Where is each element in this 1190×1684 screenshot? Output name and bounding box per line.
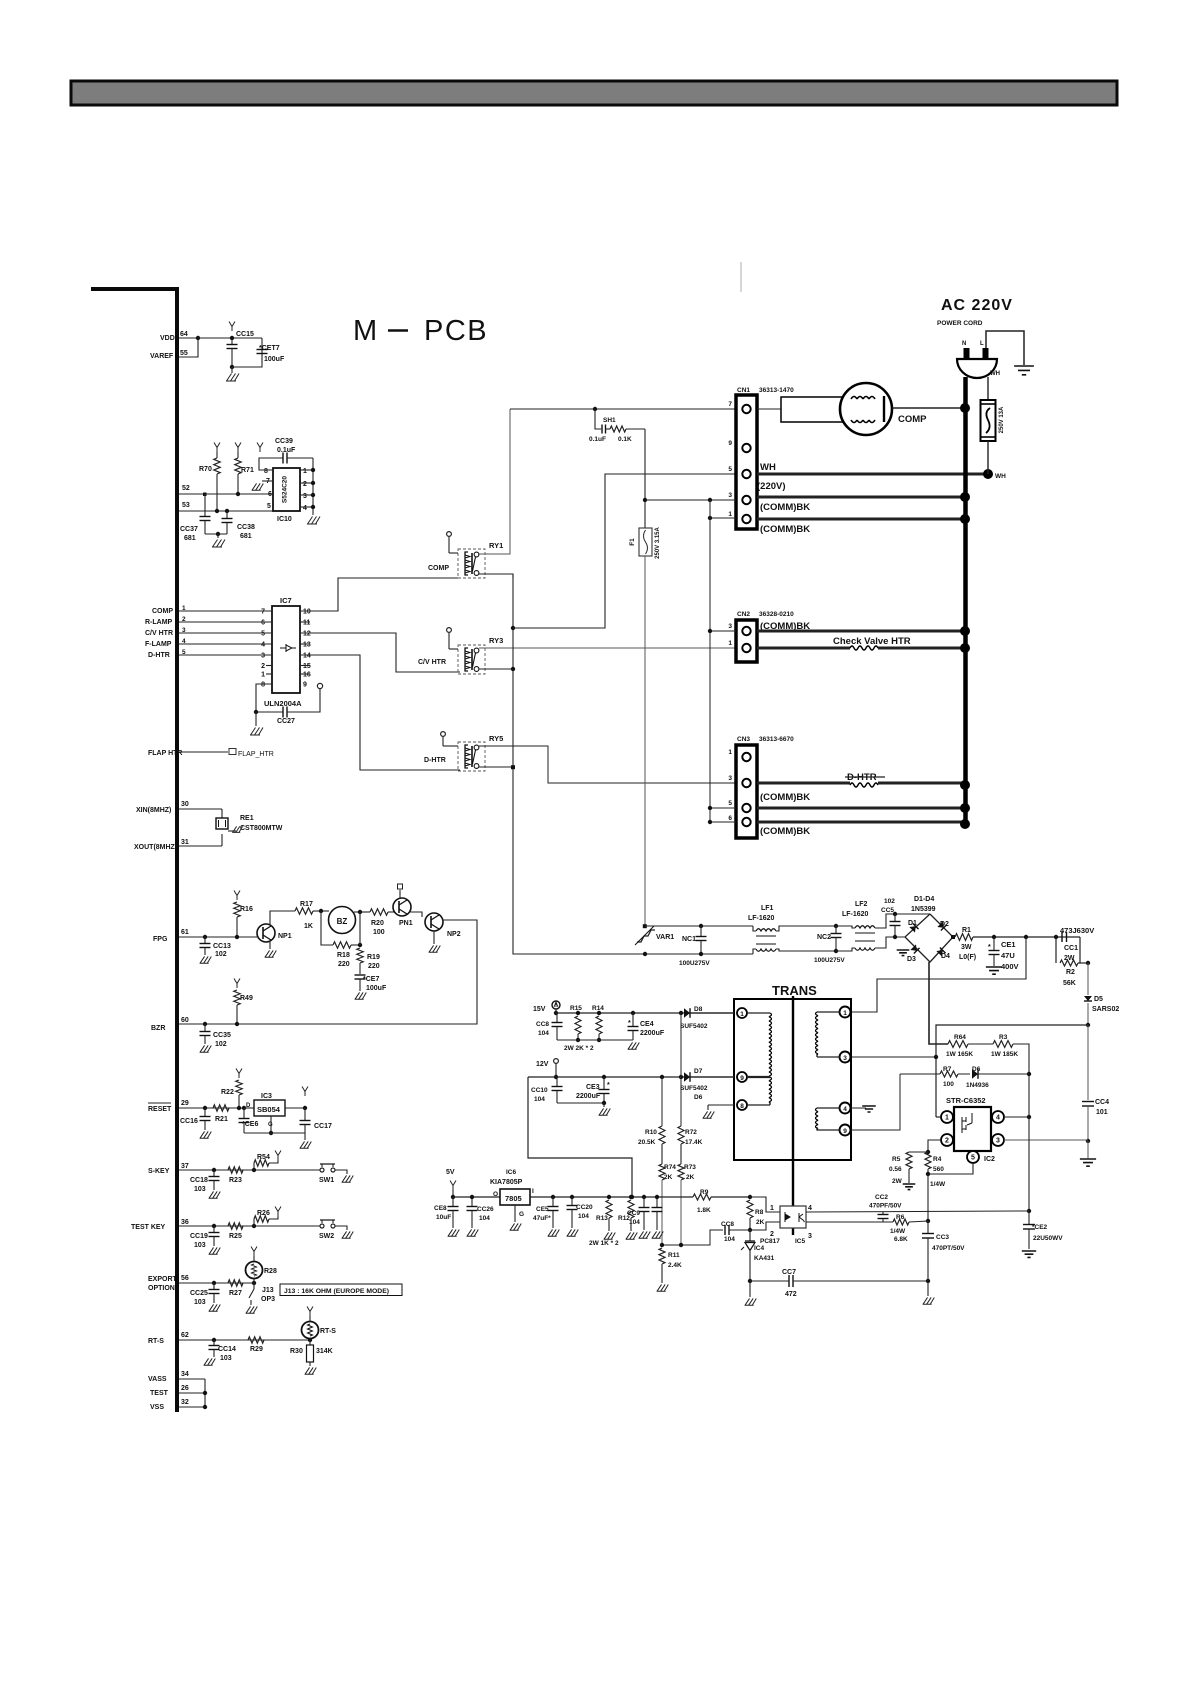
TRANS left pin 8 (737, 1100, 747, 1110)
svg-text:CE3: CE3 (586, 1084, 600, 1091)
svg-text:FPG: FPG (153, 936, 168, 943)
diode D2 (937, 921, 946, 930)
wire RY1 contact to relay common bus (479, 574, 513, 578)
ground (335, 1170, 347, 1174)
eeprom IC10 S524C20 (273, 468, 300, 511)
svg-text:8: 8 (264, 468, 268, 475)
svg-text:LF2: LF2 (855, 901, 868, 908)
resonator RE1 CST800MTW (221, 809, 223, 818)
snubber SH1 0.1uF 0.1K (510, 408, 736, 410)
compressor motor COMP (757, 408, 781, 410)
svg-text:100uF: 100uF (264, 356, 285, 363)
svg-text:100U275V: 100U275V (814, 957, 845, 964)
node VDD rail (196, 336, 200, 340)
svg-text:11: 11 (303, 620, 311, 627)
svg-text:R27: R27 (229, 1290, 242, 1297)
svg-text:CC17: CC17 (314, 1123, 332, 1130)
capacitor CC17 (302, 1087, 308, 1097)
ground (433, 931, 435, 944)
svg-text:IC5: IC5 (795, 1238, 806, 1245)
wire IC7 pin10 to RY1 coil (300, 578, 460, 611)
buzzer BZ (329, 907, 356, 934)
svg-text:CC19: CC19 (190, 1233, 208, 1240)
svg-text:J13: J13 (262, 1287, 274, 1294)
svg-text:VASS: VASS (148, 1376, 167, 1383)
wire pin5 (928, 1163, 973, 1174)
TRANS right pin 9 (840, 1125, 851, 1136)
svg-text:5: 5 (728, 466, 732, 473)
wire buzzer drive loop (179, 920, 477, 1024)
svg-text:1W 185K: 1W 185K (991, 1051, 1018, 1058)
relay common bus (513, 574, 645, 954)
svg-text:R26: R26 (257, 1210, 270, 1217)
feedback line pin3 opto (806, 1221, 883, 1223)
svg-text:CE1: CE1 (1001, 940, 1016, 949)
switch SW2 (320, 1224, 324, 1228)
svg-text:36313-1470: 36313-1470 (759, 387, 794, 394)
svg-text:681: 681 (240, 533, 252, 540)
ground (255, 712, 257, 726)
svg-text:3: 3 (808, 1233, 812, 1240)
svg-text:CE5: CE5 (536, 1206, 549, 1213)
capacitor CC15 (229, 322, 235, 332)
svg-text:2W 2K * 2: 2W 2K * 2 (564, 1045, 594, 1052)
svg-text:1K: 1K (304, 923, 313, 930)
svg-text:314K: 314K (316, 1348, 333, 1355)
svg-text:36313-6670: 36313-6670 (759, 736, 794, 743)
svg-text:1: 1 (770, 1205, 774, 1212)
svg-text:S-KEY: S-KEY (148, 1168, 170, 1175)
svg-text:CC13: CC13 (213, 943, 231, 950)
svg-text:R74: R74 (664, 1164, 676, 1171)
svg-text:36328-0210: 36328-0210 (759, 611, 794, 618)
svg-text:104: 104 (629, 1219, 640, 1226)
svg-text:R15: R15 (570, 1005, 582, 1012)
resistor R26 pull-up (252, 1224, 256, 1228)
wire CN1 pin1 left (710, 517, 736, 519)
svg-text:1: 1 (843, 1010, 847, 1017)
svg-text:CC37: CC37 (180, 526, 198, 533)
svg-text:D1-D4: D1-D4 (914, 896, 934, 903)
svg-text:CC26: CC26 (477, 1206, 494, 1213)
wire 5V rail (453, 1196, 500, 1198)
svg-text:64: 64 (180, 331, 188, 338)
wire (354, 911, 370, 913)
TRANS left pin 1 (737, 1008, 747, 1018)
svg-text:R72: R72 (685, 1129, 697, 1136)
svg-text:LF-1620: LF-1620 (842, 911, 869, 918)
svg-text:TEST: TEST (150, 1390, 169, 1397)
varistor VAR1 (643, 924, 647, 928)
wire startup bias (936, 1025, 1088, 1117)
svg-text:M: M (353, 315, 377, 347)
svg-text:400V: 400V (1001, 962, 1019, 971)
capacitor CC25 103 (212, 1281, 216, 1285)
svg-text:R71: R71 (241, 467, 254, 474)
svg-text:XOUT(8MHZ): XOUT(8MHZ) (134, 844, 177, 851)
svg-text:47uF*: 47uF* (533, 1215, 551, 1222)
svg-text:STR-C6352: STR-C6352 (946, 1096, 986, 1105)
secondary winding (747, 1012, 770, 1014)
svg-text:101: 101 (1096, 1109, 1108, 1116)
ground (927, 1281, 929, 1296)
svg-text:104: 104 (538, 1030, 549, 1037)
svg-text:7: 7 (261, 609, 265, 616)
svg-text:CC10: CC10 (531, 1087, 548, 1094)
optocoupler IC5 PC817 (750, 1197, 780, 1212)
svg-text:R29: R29 (250, 1346, 263, 1353)
svg-text:102: 102 (884, 898, 895, 905)
svg-text:104: 104 (479, 1215, 490, 1222)
AC N bus (963, 377, 968, 824)
svg-text:CC7: CC7 (782, 1269, 796, 1276)
wire (204, 1379, 206, 1407)
svg-text:CE8: CE8 (434, 1205, 447, 1212)
svg-text:1N4936: 1N4936 (966, 1082, 989, 1089)
resistor R49 (234, 979, 240, 989)
transistor NP1 (257, 924, 275, 942)
svg-text:R22: R22 (221, 1089, 234, 1096)
svg-text:(COMM)BK: (COMM)BK (760, 524, 810, 535)
resistor R23 (228, 1167, 243, 1173)
resistor R27 (228, 1280, 243, 1286)
svg-text:PCB: PCB (424, 315, 488, 347)
svg-text:NC1: NC1 (682, 936, 696, 943)
resistor R30 314K (309, 1340, 311, 1345)
svg-text:I: I (532, 1188, 534, 1195)
svg-text:1W 165K: 1W 165K (946, 1051, 973, 1058)
svg-text:2W 1K * 2: 2W 1K * 2 (589, 1240, 619, 1247)
svg-text:9: 9 (740, 1075, 744, 1082)
svg-text:9: 9 (728, 440, 732, 447)
relay RY3 (458, 645, 485, 674)
svg-text:R17: R17 (300, 901, 313, 908)
svg-text:12V: 12V (536, 1061, 549, 1068)
svg-text:0.1K: 0.1K (618, 436, 632, 443)
fuse 250V 13A (987, 377, 989, 400)
svg-text:(COMM)BK: (COMM)BK (760, 792, 810, 803)
svg-text:CC16: CC16 (180, 1118, 198, 1125)
svg-text:NC2: NC2 (817, 934, 831, 941)
svg-text:2: 2 (303, 481, 307, 488)
svg-text:R19: R19 (367, 954, 380, 961)
resistor R1 3W L0(F) (951, 935, 955, 939)
svg-text:6: 6 (261, 620, 265, 627)
svg-text:5: 5 (267, 503, 271, 510)
wire WH 220V to relay bus (513, 474, 736, 628)
svg-text:7805: 7805 (505, 1194, 522, 1203)
svg-text:1: 1 (303, 468, 307, 475)
svg-text:D8: D8 (694, 1006, 703, 1013)
svg-text:61: 61 (181, 929, 189, 936)
relay RY1 (458, 549, 485, 578)
svg-text:8: 8 (261, 682, 265, 689)
svg-text:10uF: 10uF (436, 1214, 451, 1221)
wire COMP to N bus (892, 407, 965, 409)
svg-text:R-LAMP: R-LAMP (145, 619, 173, 626)
svg-text:R13: R13 (596, 1215, 608, 1222)
svg-text:1: 1 (728, 640, 732, 647)
svg-text:(COMM)BK: (COMM)BK (760, 826, 810, 837)
svg-text:L0(F): L0(F) (959, 954, 976, 961)
svg-text:1: 1 (261, 672, 265, 679)
svg-text:D-HTR: D-HTR (424, 757, 446, 764)
svg-text:KIA7805P: KIA7805P (490, 1179, 523, 1186)
svg-text:G: G (519, 1211, 524, 1218)
wire filter bottom rail (645, 953, 753, 955)
reference divider wire (662, 1230, 723, 1245)
svg-text:CC5: CC5 (881, 907, 894, 914)
resistor R25 (228, 1223, 243, 1229)
svg-text:N: N (962, 341, 966, 347)
svg-text:AC 220V: AC 220V (941, 297, 1013, 314)
svg-text:34: 34 (181, 1371, 189, 1378)
svg-text:1: 1 (945, 1115, 949, 1122)
diode D3 (910, 944, 919, 953)
svg-text:5: 5 (261, 631, 265, 638)
svg-text:CC8: CC8 (536, 1021, 549, 1028)
svg-text:SARS02: SARS02 (1092, 1006, 1119, 1013)
svg-text:1/4W: 1/4W (930, 1181, 946, 1188)
thermistor R28 (252, 1281, 256, 1285)
svg-text:EXPORT: EXPORT (148, 1276, 178, 1283)
scan crease mark (740, 262, 742, 292)
wire ground rail (557, 1039, 633, 1041)
svg-text:14: 14 (303, 653, 311, 660)
svg-text:F1: F1 (629, 538, 636, 546)
svg-text:D4: D4 (941, 953, 950, 960)
wire CN1 pin3 left (645, 499, 736, 501)
svg-text:6: 6 (728, 815, 732, 822)
svg-text:9: 9 (843, 1128, 847, 1135)
resistor R20 100 (370, 909, 388, 915)
svg-text:CC9: CC9 (627, 1210, 640, 1217)
svg-text:2.4K: 2.4K (668, 1262, 682, 1269)
svg-text:100: 100 (373, 929, 385, 936)
capacitor CC13 102 (203, 935, 207, 939)
svg-text:L: L (980, 341, 984, 347)
svg-text:12: 12 (303, 631, 311, 638)
svg-text:0.56: 0.56 (889, 1166, 902, 1173)
svg-text:R64: R64 (954, 1034, 966, 1041)
wire pin4 ground (851, 1107, 866, 1109)
svg-text:CE4: CE4 (640, 1021, 654, 1028)
svg-text:R70: R70 (199, 466, 212, 473)
svg-text:R11: R11 (668, 1252, 680, 1259)
svg-text:BZR: BZR (151, 1025, 165, 1032)
svg-text:RT-S: RT-S (148, 1338, 164, 1345)
svg-text:2: 2 (770, 1231, 774, 1238)
svg-text:2K: 2K (686, 1174, 695, 1181)
svg-text:C/V HTR: C/V HTR (418, 659, 446, 666)
COMM bus to CN2 CN3 (709, 500, 711, 822)
resistor R19 220 (359, 912, 361, 945)
svg-text:SW2: SW2 (319, 1233, 334, 1240)
svg-text:560: 560 (933, 1166, 944, 1173)
svg-text:4: 4 (996, 1115, 1000, 1122)
svg-text:2: 2 (261, 663, 265, 670)
svg-text:(220V): (220V) (757, 481, 786, 492)
svg-text:R21: R21 (215, 1116, 228, 1123)
svg-text:53: 53 (182, 502, 190, 509)
svg-text:WH: WH (990, 371, 1000, 377)
svg-text:473J630V: 473J630V (1060, 926, 1094, 935)
wire aux winding pin9 (851, 1074, 900, 1130)
ground (603, 1103, 605, 1107)
svg-text:R28: R28 (264, 1268, 277, 1275)
wire pin2 (928, 1140, 941, 1152)
wire RY3 contact to bus (479, 668, 513, 670)
microcontroller block border (91, 289, 177, 1412)
svg-text:NP2: NP2 (447, 931, 461, 938)
svg-text:37: 37 (181, 1163, 189, 1170)
primary winding (817, 1011, 840, 1013)
diode D1 (909, 923, 918, 932)
svg-text:CC4: CC4 (1095, 1099, 1109, 1106)
svg-text:8: 8 (740, 1103, 744, 1110)
svg-text:CC8: CC8 (721, 1221, 734, 1228)
resistor R29 (248, 1337, 264, 1343)
resistor R22 (236, 1069, 242, 1079)
svg-text:SW1: SW1 (319, 1177, 334, 1184)
svg-text:104: 104 (724, 1236, 735, 1243)
svg-text:CC20: CC20 (576, 1204, 593, 1211)
svg-text:FLAP HTR: FLAP HTR (148, 750, 182, 757)
svg-text:5: 5 (971, 1155, 975, 1162)
resistor R70 (214, 443, 220, 453)
svg-text:FLAP_HTR: FLAP_HTR (238, 751, 274, 758)
svg-text:R2: R2 (1066, 969, 1075, 976)
svg-text:52: 52 (182, 485, 190, 492)
svg-text:PC817: PC817 (760, 1238, 780, 1245)
svg-text:103: 103 (194, 1299, 206, 1306)
ground (307, 517, 320, 525)
svg-text:D5: D5 (1094, 996, 1103, 1003)
svg-text:10: 10 (303, 609, 311, 616)
svg-text:5: 5 (728, 800, 732, 807)
wire 12V loop to regulator input (528, 1077, 632, 1197)
svg-text:103: 103 (220, 1355, 232, 1362)
svg-text:2K: 2K (756, 1219, 765, 1226)
svg-text:220: 220 (338, 961, 350, 968)
svg-text:BZ: BZ (337, 917, 348, 926)
svg-text:2W: 2W (892, 1178, 903, 1185)
svg-text:POWER CORD: POWER CORD (937, 320, 983, 327)
ground (628, 1042, 640, 1049)
ground (749, 1281, 751, 1297)
svg-text:6: 6 (268, 491, 272, 498)
svg-text:7: 7 (728, 401, 732, 408)
svg-text:60: 60 (181, 1017, 189, 1024)
wire regulator input rail (530, 1196, 693, 1198)
wire aux supply (1028, 1117, 1030, 1211)
svg-text:WH: WH (760, 462, 776, 473)
svg-text:XIN(8MHZ): XIN(8MHZ) (136, 807, 171, 814)
svg-text:R5: R5 (892, 1156, 901, 1163)
transistor NP2 (425, 913, 443, 931)
svg-text:4: 4 (843, 1106, 847, 1113)
transistor PN1 (393, 898, 411, 916)
svg-text:CST800MTW: CST800MTW (240, 825, 283, 832)
zener D5 SARS02 (1084, 996, 1092, 1001)
svg-text:2200uF: 2200uF (576, 1093, 601, 1100)
svg-text:220: 220 (368, 963, 380, 970)
svg-text:COMP: COMP (152, 608, 173, 615)
capacitor (656, 1197, 658, 1207)
wire RY5 contact to bus (479, 766, 513, 768)
feedback line pin4 opto (806, 1211, 1029, 1212)
thermistor RT-S (308, 1338, 312, 1342)
svg-text:3W: 3W (961, 944, 972, 951)
svg-text:R23: R23 (229, 1177, 242, 1184)
svg-text:104: 104 (534, 1096, 545, 1103)
svg-text:CC27: CC27 (277, 718, 295, 725)
ground rail (244, 1132, 305, 1134)
svg-text:16: 16 (303, 672, 311, 679)
svg-text:NP1: NP1 (278, 933, 292, 940)
svg-text:3: 3 (728, 623, 732, 630)
svg-text:VDD: VDD (160, 335, 175, 342)
svg-text:IC4: IC4 (754, 1245, 765, 1252)
svg-text:CC2: CC2 (875, 1194, 888, 1201)
svg-text:56: 56 (181, 1275, 189, 1282)
svg-text:102: 102 (215, 1041, 227, 1048)
svg-text:R73: R73 (684, 1164, 696, 1171)
wire source sense (927, 1174, 929, 1221)
wire 15V rail (556, 1012, 734, 1014)
svg-text:29: 29 (181, 1100, 189, 1107)
svg-text:KA431: KA431 (754, 1255, 775, 1262)
svg-text:CC18: CC18 (190, 1177, 208, 1184)
wire primary pin3 to switcher (852, 1056, 936, 1058)
capacitor CE7 100uF (359, 963, 361, 974)
svg-text:47U: 47U (1001, 951, 1015, 960)
wire 12V rail (528, 1076, 734, 1078)
svg-text:3: 3 (728, 492, 732, 499)
svg-text:4: 4 (808, 1205, 812, 1212)
svg-text:6.8K: 6.8K (894, 1236, 908, 1243)
relay RY5 (458, 742, 485, 771)
svg-text:R10: R10 (645, 1129, 657, 1136)
TRANS right pin 3 (840, 1052, 851, 1063)
svg-text:SUF5402: SUF5402 (680, 1085, 708, 1092)
svg-text:SUF5402: SUF5402 (680, 1023, 708, 1030)
svg-text:D7: D7 (694, 1068, 703, 1075)
svg-text:R3: R3 (999, 1034, 1008, 1041)
svg-text:R8: R8 (755, 1209, 764, 1216)
isolation barrier (792, 996, 794, 1235)
svg-text:WH: WH (995, 473, 1006, 480)
svg-text:250V 13A: 250V 13A (999, 406, 1005, 433)
capacitor CC16 (203, 1106, 207, 1110)
svg-text:CC38: CC38 (237, 524, 255, 531)
svg-text:SH1: SH1 (603, 417, 616, 424)
svg-text:55: 55 (180, 350, 188, 357)
svg-text:2K: 2K (664, 1174, 673, 1181)
svg-text:COMP: COMP (898, 414, 927, 425)
wire CN2 pin3 stub (710, 630, 736, 632)
svg-text:D3: D3 (907, 956, 916, 963)
svg-text:D-HTR: D-HTR (148, 652, 170, 659)
svg-text:SB054: SB054 (257, 1105, 281, 1114)
svg-text:0.1uF: 0.1uF (589, 436, 606, 443)
svg-text:31: 31 (181, 839, 189, 846)
svg-text:IC2: IC2 (984, 1156, 995, 1163)
svg-text:J13 : 16K OHM (EUROPE MODE): J13 : 16K OHM (EUROPE MODE) (284, 1288, 389, 1295)
svg-text:3: 3 (728, 775, 732, 782)
svg-text:VAREF: VAREF (150, 353, 174, 360)
svg-text:22U50WV: 22U50WV (1033, 1235, 1063, 1242)
